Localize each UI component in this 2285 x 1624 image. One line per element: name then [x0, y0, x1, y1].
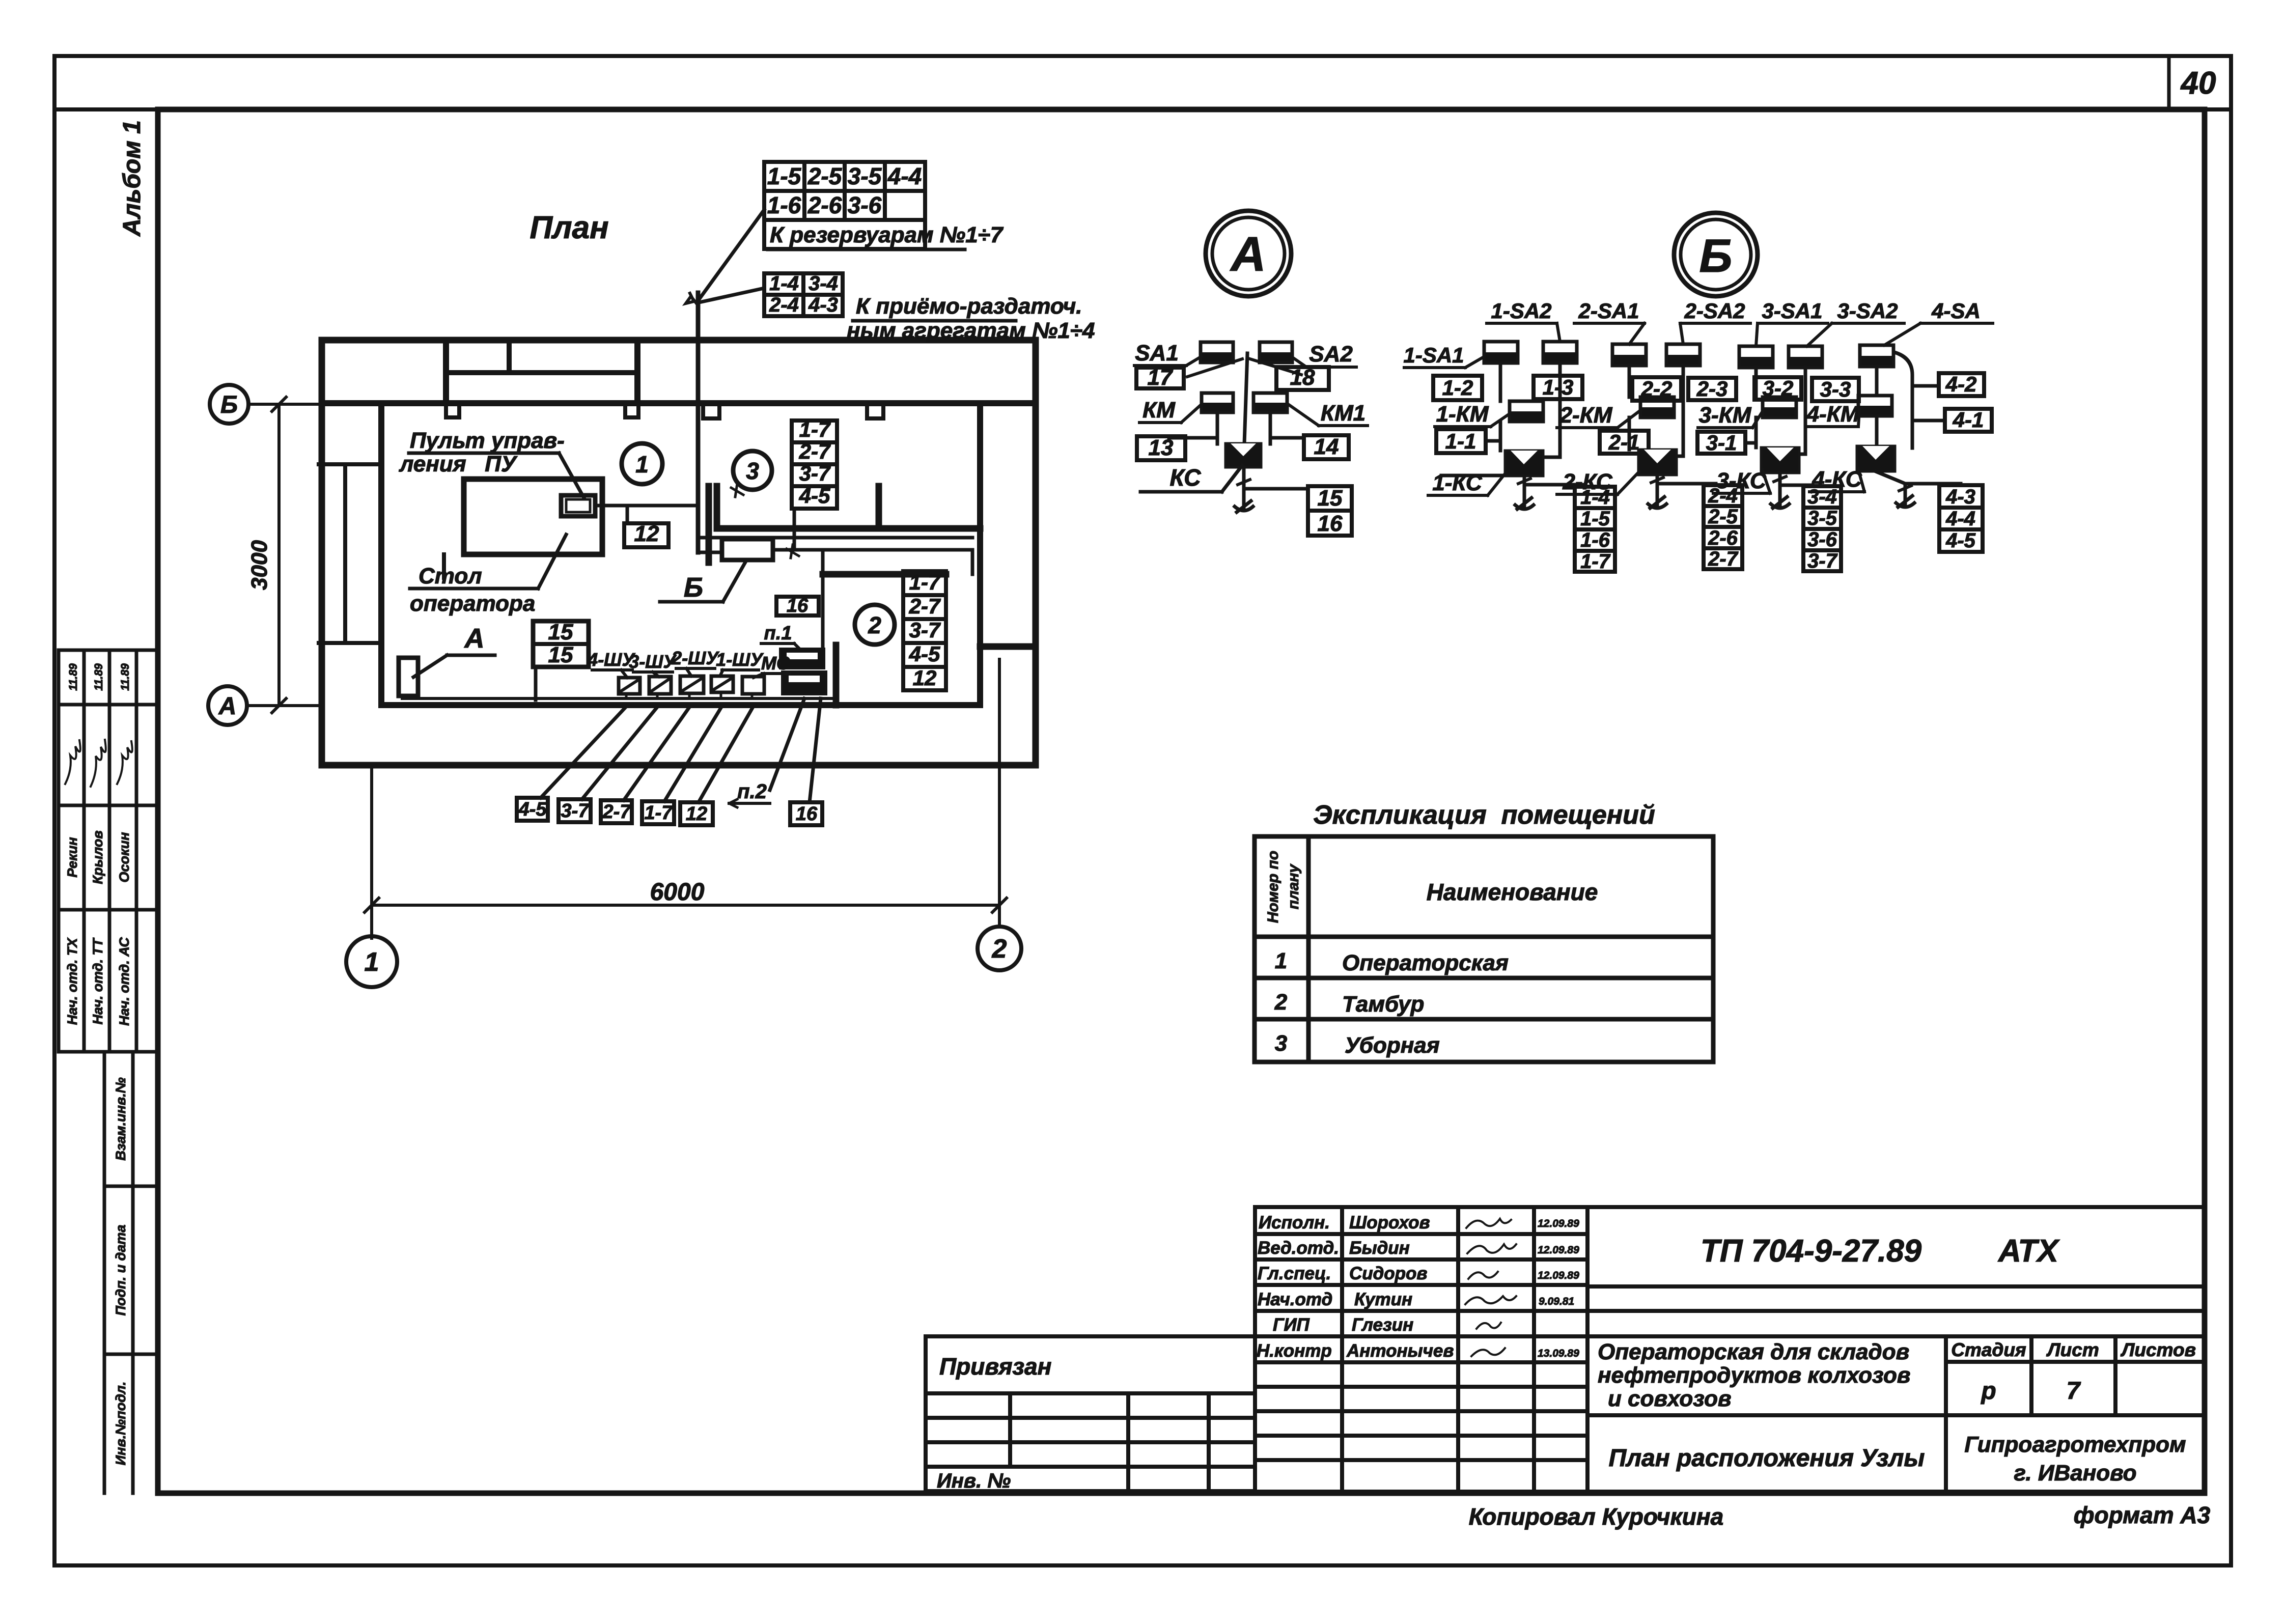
svg-text:6000: 6000: [650, 879, 705, 906]
wire central vertical: [1244, 353, 1247, 444]
module 2 wires: [1629, 366, 1683, 456]
box 4-2: [1939, 373, 1984, 396]
svg-text:4-КМ: 4-КМ: [1806, 402, 1860, 427]
svg-text:12.09.89: 12.09.89: [1538, 1270, 1579, 1281]
svg-text:КС: КС: [1170, 464, 1202, 491]
svg-text:Н.контр: Н.контр: [1257, 1341, 1332, 1361]
svg-text:Наименование: Наименование: [1427, 879, 1598, 905]
stack 4-3..4-5: [1939, 485, 1983, 552]
svg-text:План расположения Узлы: План расположения Узлы: [1609, 1445, 1925, 1472]
wire KM1 down: [1269, 412, 1272, 444]
svg-text:п.1: п.1: [764, 623, 792, 644]
switch box 4-ShU: [619, 678, 640, 694]
top labels diagram B: [1403, 299, 1980, 367]
svg-text:Операторская для складов: Операторская для складов: [1598, 1339, 1909, 1364]
wire box B to room2: [773, 550, 972, 574]
wire riser to box B: [698, 551, 722, 554]
svg-text:12: 12: [913, 666, 937, 690]
riser top hook: [686, 293, 698, 305]
svg-text:3-КМ: 3-КМ: [1699, 403, 1752, 428]
svg-text:Инв. №: Инв. №: [937, 1470, 1011, 1492]
contactor 1-KM: [1510, 401, 1543, 422]
bottom box 12: [680, 802, 713, 825]
switch drops: [626, 692, 752, 698]
stack room2 boxes 1-7..12: [903, 571, 946, 690]
svg-text:3-7: 3-7: [799, 461, 831, 485]
vertical dimension 3000: [277, 404, 281, 706]
svg-text:г. ИВаново: г. ИВаново: [2014, 1461, 2136, 1486]
valve 4-KC: [1857, 446, 1895, 471]
connector box p2: [782, 671, 826, 694]
stack room3 boxes 1-7..4-5: [792, 421, 837, 509]
svg-text:Альбом 1: Альбом 1: [119, 120, 146, 237]
svg-text:А: А: [464, 623, 485, 654]
svg-text:2-5: 2-5: [1708, 506, 1738, 528]
module 1 bottom wire: [1523, 476, 1526, 508]
svg-text:1-ШУ: 1-ШУ: [716, 649, 764, 670]
svg-text:Инв.№подл.: Инв.№подл.: [113, 1382, 128, 1465]
contactor 2-KM: [1640, 397, 1674, 417]
svg-text:Нач. отд. ТХ: Нач. отд. ТХ: [65, 937, 80, 1025]
svg-text:ления ПУ: ления ПУ: [399, 452, 518, 477]
room3 door stub: [876, 486, 882, 528]
svg-text:12.09.89: 12.09.89: [1538, 1244, 1579, 1256]
svg-text:3-6: 3-6: [1807, 528, 1837, 551]
wire box15 down: [534, 667, 538, 700]
left margin signature table: [59, 650, 158, 1052]
svg-text:Нач. отд. АС: Нач. отд. АС: [117, 937, 132, 1026]
desk tail line: [442, 554, 446, 578]
wire to box 14: [1270, 436, 1304, 440]
svg-text:3-7: 3-7: [561, 800, 590, 822]
switch label leaders: [592, 668, 790, 678]
svg-text:16: 16: [787, 595, 809, 617]
svg-text:17: 17: [1148, 365, 1174, 390]
svg-text:1-1: 1-1: [1445, 429, 1476, 453]
svg-text:18: 18: [1290, 365, 1315, 390]
box 3-3: [1812, 378, 1859, 401]
svg-text:11.89: 11.89: [119, 663, 131, 691]
svg-text:1-2: 1-2: [1442, 376, 1473, 400]
svg-text:Пульт управ-: Пульт управ-: [410, 428, 565, 453]
svg-text:1: 1: [365, 947, 379, 977]
svg-text:Операторская: Операторская: [1342, 950, 1509, 975]
svg-text:3-4: 3-4: [1807, 486, 1837, 508]
room3 bottom wall: [721, 525, 980, 532]
svg-text:плану: плану: [1285, 863, 1302, 909]
room mark circle 3: [733, 451, 772, 490]
switch box 1-ShU: [711, 676, 733, 692]
room mark circle 1: [622, 443, 662, 484]
svg-text:Б: Б: [684, 572, 703, 603]
door jamb notch 1: [703, 403, 719, 418]
svg-text:Гл.спец.: Гл.спец.: [1258, 1264, 1331, 1283]
box 15-15: [533, 621, 589, 667]
junction box B: [722, 539, 773, 560]
svg-text:ТП 704-9-27.89: ТП 704-9-27.89: [1701, 1234, 1922, 1269]
svg-text:12: 12: [686, 803, 707, 825]
svg-text:3-4: 3-4: [809, 272, 838, 295]
wire PU to riser: [595, 504, 698, 508]
svg-text:Тамбур: Тамбур: [1342, 992, 1424, 1017]
label underlines and leaders: [1404, 323, 1993, 368]
room mark circle 2: [855, 605, 895, 645]
svg-text:п.2: п.2: [737, 780, 767, 803]
building outer walls: [322, 340, 1036, 765]
module 4 wires: [1877, 352, 1945, 448]
svg-text:3-ШУ: 3-ШУ: [629, 651, 677, 672]
module 3 bottom wire: [1778, 473, 1782, 507]
svg-text:2-4: 2-4: [1708, 485, 1738, 507]
contactor 4-KM: [1858, 396, 1892, 416]
svg-text:3-SA1: 3-SA1: [1762, 299, 1822, 323]
contactor KM1: [1253, 393, 1287, 412]
door jamb notch 3: [446, 403, 459, 417]
svg-text:15: 15: [1318, 486, 1343, 511]
svg-text:4-3: 4-3: [808, 294, 838, 316]
wire stack connector: [793, 509, 796, 550]
svg-text:Нач. отд. ТТ: Нач. отд. ТТ: [90, 937, 105, 1025]
svg-text:SA2: SA2: [1309, 342, 1353, 367]
svg-text:4-3: 4-3: [1945, 486, 1975, 508]
svg-text:13.09.89: 13.09.89: [1538, 1348, 1579, 1359]
box 2-1: [1600, 431, 1649, 454]
box 16 upper: [776, 597, 819, 615]
door jamb notch 4: [625, 403, 638, 417]
signature scribbles: [1465, 1219, 1516, 1356]
svg-text:16: 16: [1318, 511, 1343, 536]
svg-text:9.09.81: 9.09.81: [1539, 1296, 1574, 1307]
svg-text:Вед.отд.: Вед.отд.: [1258, 1238, 1339, 1258]
connector box p1: [780, 649, 824, 668]
svg-text:КМ1: КМ1: [1321, 401, 1366, 426]
svg-text:Крылов: Крылов: [90, 830, 105, 884]
stack 3-4..3-7: [1803, 486, 1841, 571]
svg-text:3000: 3000: [247, 540, 272, 590]
svg-text:Осокин: Осокин: [117, 832, 132, 883]
box 3-1: [1697, 432, 1745, 454]
switch 1-SA2: [1543, 342, 1577, 363]
box 1-3: [1534, 376, 1582, 399]
switch 3-SA2: [1789, 346, 1822, 368]
svg-text:План: План: [530, 210, 608, 245]
wire KC down: [1242, 467, 1246, 508]
wire to box 13: [1169, 436, 1217, 440]
box 4-1: [1945, 409, 1992, 432]
left wall door opening jamb bottom: [319, 641, 379, 645]
svg-text:7: 7: [2067, 1378, 2081, 1405]
svg-text:4-4: 4-4: [1945, 508, 1975, 530]
svg-text:1-4: 1-4: [769, 272, 799, 295]
svg-text:2-6: 2-6: [1708, 527, 1738, 549]
wire jog from PU wire down: [708, 506, 712, 538]
svg-text:12: 12: [634, 521, 659, 546]
box 2-3: [1688, 378, 1736, 400]
horizontal dimension 6000: [372, 904, 999, 907]
svg-text:Взам.инв.№: Взам.инв.№: [113, 1077, 128, 1160]
wall inner face top: [322, 400, 1036, 406]
vestibule divider: [446, 370, 637, 375]
svg-text:40: 40: [2180, 66, 2216, 101]
svg-text:2-SA1: 2-SA1: [1578, 299, 1639, 323]
svg-text:формат А3: формат А3: [2074, 1502, 2211, 1528]
wire crossing right: [1250, 359, 1301, 375]
wire drop to p1: [821, 551, 825, 649]
svg-text:ным агрегатам №1÷4: ным агрегатам №1÷4: [847, 318, 1095, 343]
svg-text:АТХ: АТХ: [1997, 1234, 2060, 1269]
svg-text:и совхозов: и совхозов: [1608, 1386, 1732, 1411]
SE inner wall step: [980, 643, 1036, 650]
svg-text:А: А: [1230, 227, 1266, 282]
room2 top wall: [823, 571, 946, 578]
vestibule wall right: [634, 340, 640, 403]
svg-text:Привязан: Привязан: [939, 1353, 1051, 1380]
room2 left wall: [833, 645, 840, 705]
switch 3-SA1: [1739, 346, 1773, 368]
valve KC: [1225, 443, 1261, 467]
vestibule wall left: [443, 340, 449, 403]
svg-text:Шорохов: Шорохов: [1349, 1213, 1430, 1233]
svg-text:Номер по: Номер по: [1265, 851, 1281, 923]
svg-text:1-6: 1-6: [1580, 529, 1610, 551]
sheet number cell divider: [2167, 56, 2171, 109]
title block left part Privyazan: [926, 1336, 1255, 1491]
module 3 wires: [1745, 368, 1805, 454]
svg-text:МС: МС: [761, 653, 790, 674]
svg-text:1-7: 1-7: [645, 802, 674, 824]
switch box 2-ShU: [680, 676, 704, 693]
svg-text:Глезин: Глезин: [1352, 1315, 1413, 1335]
svg-text:16: 16: [796, 803, 818, 825]
bottom box 1-7: [642, 801, 674, 824]
box 13: [1137, 436, 1185, 460]
svg-text:1-5: 1-5: [767, 163, 802, 189]
svg-text:2-SA2: 2-SA2: [1684, 299, 1745, 323]
wire KC to 15-16: [1244, 487, 1308, 491]
svg-text:Б: Б: [220, 391, 238, 418]
svg-text:1-7: 1-7: [909, 570, 941, 594]
module 1 wires: [1486, 363, 1560, 457]
switch 2-SA2: [1666, 344, 1700, 366]
box 3-2: [1754, 377, 1801, 400]
svg-text:Экспликация помещений: Экспликация помещений: [1313, 800, 1655, 830]
svg-text:2-7: 2-7: [909, 594, 941, 618]
partition room1-room3: [706, 486, 712, 563]
bottom box 16: [790, 802, 822, 825]
leader lines to bottom boxes: [541, 698, 821, 802]
wire KM down: [1216, 412, 1219, 444]
riser wire: [696, 293, 701, 552]
bottom box 4-5: [517, 798, 548, 821]
svg-text:15: 15: [548, 620, 573, 645]
title block right part: [926, 1207, 2205, 1492]
svg-text:2-6: 2-6: [807, 192, 842, 218]
svg-text:2-ШУ: 2-ШУ: [671, 648, 719, 668]
svg-text:2: 2: [868, 612, 881, 638]
svg-text:4-5: 4-5: [909, 642, 940, 666]
switch 4-SA: [1860, 345, 1893, 367]
leader to agregat table: [699, 288, 764, 302]
svg-text:3-5: 3-5: [1807, 507, 1837, 529]
svg-text:4-1: 4-1: [1953, 408, 1984, 432]
svg-text:Антонычев: Антонычев: [1346, 1341, 1454, 1361]
svg-text:2-3: 2-3: [1696, 377, 1728, 401]
svg-text:4-5: 4-5: [799, 484, 830, 508]
svg-text:Б: Б: [1699, 230, 1732, 282]
partition stub L: [714, 486, 720, 528]
svg-text:1-3: 1-3: [1543, 375, 1574, 399]
agregat table T2: [764, 273, 843, 316]
svg-text:Уборная: Уборная: [1345, 1033, 1440, 1058]
switch 2-SA1: [1612, 344, 1646, 366]
svg-text:1-SA1: 1-SA1: [1403, 343, 1464, 367]
svg-text:4-ШУ: 4-ШУ: [587, 649, 635, 670]
svg-text:КМ: КМ: [1142, 398, 1176, 423]
svg-text:А: А: [218, 693, 237, 720]
bottom box 3-7: [559, 799, 591, 822]
switch labels: [587, 648, 790, 674]
left wall door leaf line: [343, 464, 347, 643]
stadiya list listov: [1951, 1339, 2196, 1405]
switch SA1: [1201, 342, 1233, 362]
svg-text:Гипроагротехпром: Гипроагротехпром: [1964, 1432, 2186, 1457]
svg-text:2: 2: [1274, 990, 1288, 1015]
svg-text:1: 1: [635, 451, 649, 478]
svg-text:15: 15: [548, 642, 573, 667]
svg-text:11.89: 11.89: [92, 663, 105, 691]
svg-text:3-1: 3-1: [1706, 431, 1737, 455]
valve 3-KC: [1761, 447, 1799, 473]
signature squiggles: [65, 740, 132, 787]
svg-text:Листов: Листов: [2120, 1339, 2196, 1360]
box 18: [1276, 367, 1329, 390]
object name: [1598, 1339, 1910, 1411]
box 12 under wire: [626, 506, 629, 523]
stack 1-4..1-7: [1575, 487, 1615, 572]
svg-text:13: 13: [1149, 435, 1174, 460]
axis 2 circle: [978, 927, 1021, 970]
svg-text:4-5: 4-5: [1945, 529, 1976, 552]
vestibule upper cell divider: [507, 340, 512, 373]
left wall door opening jamb top: [319, 462, 379, 466]
wire crossing left: [1187, 359, 1242, 377]
svg-text:3-7: 3-7: [909, 618, 941, 642]
switch SA2: [1260, 342, 1292, 362]
svg-text:1-7: 1-7: [1580, 550, 1611, 573]
svg-text:Нач.отд: Нач.отд: [1258, 1290, 1332, 1309]
box 14: [1304, 435, 1349, 459]
left margin lower cells: [104, 1052, 158, 1493]
svg-text:3-SA2: 3-SA2: [1837, 299, 1898, 323]
svg-text:SA1: SA1: [1135, 341, 1179, 366]
control console PU: [561, 495, 595, 516]
bottom box 2-7: [601, 800, 632, 823]
svg-text:Копировал Курочкина: Копировал Курочкина: [1469, 1503, 1724, 1530]
box 2-2: [1632, 377, 1681, 401]
svg-text:4-5: 4-5: [518, 799, 547, 820]
svg-text:3-7: 3-7: [1807, 550, 1838, 572]
svg-text:1-4: 1-4: [1580, 486, 1610, 509]
svg-text:3: 3: [1275, 1031, 1287, 1056]
svg-text:1: 1: [1275, 948, 1287, 973]
svg-text:нефтепродуктов колхозов: нефтепродуктов колхозов: [1598, 1363, 1910, 1388]
pipe anchor: [1235, 501, 1253, 512]
wall inner face bottom: [381, 702, 980, 708]
axis A circle: [208, 686, 247, 725]
svg-text:2-7: 2-7: [799, 439, 831, 463]
axis B circle: [210, 385, 248, 424]
explication table: [1255, 836, 1713, 1062]
switch 1-SA1: [1484, 342, 1518, 363]
svg-text:2-КМ: 2-КМ: [1559, 403, 1613, 428]
module 4 bottom wire: [1876, 471, 1905, 506]
svg-text:Подп. и дата: Подп. и дата: [113, 1225, 128, 1316]
detail circle A: [1206, 211, 1291, 296]
contactor KM: [1202, 393, 1233, 412]
baseboard wire: [402, 697, 835, 700]
svg-text:Сидоров: Сидоров: [1349, 1264, 1428, 1283]
reservoir table T1: [764, 162, 925, 249]
valve 2-KC: [1638, 450, 1677, 475]
svg-text:2-7: 2-7: [602, 801, 632, 823]
wall inner face left: [378, 403, 384, 705]
svg-text:2-7: 2-7: [1708, 548, 1739, 570]
svg-text:1-7: 1-7: [799, 417, 831, 441]
svg-text:Исполн.: Исполн.: [1259, 1213, 1330, 1233]
leader to reservoir table: [699, 210, 764, 299]
svg-text:4-4: 4-4: [887, 163, 922, 189]
svg-text:11.89: 11.89: [67, 663, 79, 691]
svg-text:Стадия: Стадия: [1951, 1339, 2026, 1360]
svg-text:2-4: 2-4: [769, 294, 799, 316]
top band line: [54, 107, 2231, 111]
svg-text:ГИП: ГИП: [1273, 1315, 1310, 1335]
box 17: [1136, 368, 1184, 388]
svg-text:оператора: оператора: [410, 591, 535, 616]
box 15-16: [1308, 486, 1352, 536]
detail A rect: [399, 658, 418, 696]
inner drawing frame: [158, 109, 2205, 1493]
operator desk: [464, 479, 602, 554]
svg-text:Рекин: Рекин: [65, 837, 80, 877]
svg-text:Стол: Стол: [419, 564, 482, 589]
svg-text:Лист: Лист: [2046, 1339, 2099, 1360]
svg-text:р: р: [1980, 1378, 1996, 1405]
module 2 bottom wire: [1656, 475, 1659, 507]
wire bundle upper line: [699, 536, 972, 540]
valve 1-KC: [1505, 451, 1543, 476]
svg-text:1-SA2: 1-SA2: [1491, 299, 1551, 323]
svg-text:Быдин: Быдин: [1349, 1238, 1410, 1258]
svg-text:1-6: 1-6: [767, 192, 801, 218]
switch box MS: [742, 677, 764, 694]
svg-text:4-2: 4-2: [1945, 372, 1977, 396]
svg-text:14: 14: [1314, 434, 1339, 459]
title block signature table: [1255, 1207, 1587, 1492]
door jamb notch 2: [867, 403, 883, 418]
svg-text:3-5: 3-5: [848, 163, 882, 189]
stack 2-4..2-7: [1704, 485, 1742, 569]
svg-text:Кутин: Кутин: [1354, 1290, 1412, 1309]
switch box 3-ShU: [649, 677, 671, 694]
svg-text:3-6: 3-6: [848, 192, 882, 218]
svg-text:4-SA: 4-SA: [1931, 299, 1981, 323]
svg-text:2-5: 2-5: [807, 163, 843, 189]
svg-text:12.09.89: 12.09.89: [1538, 1218, 1579, 1229]
contactor 3-KM: [1763, 397, 1796, 417]
svg-text:3: 3: [746, 458, 759, 484]
svg-text:К резервуарам №1÷7: К резервуарам №1÷7: [770, 222, 1004, 247]
